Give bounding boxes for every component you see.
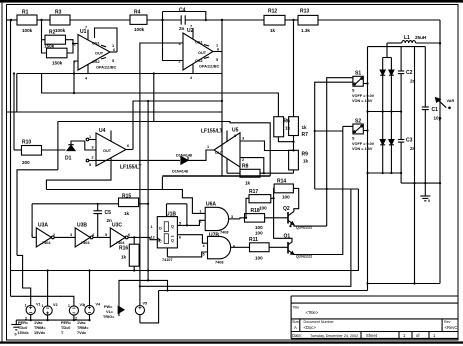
junction bbox=[413, 282, 415, 284]
wire inv3 to flip-flop clock bbox=[128, 237, 157, 239]
svg-text:R6: R6 bbox=[284, 119, 291, 125]
junction bbox=[147, 203, 149, 205]
wire mid rail A bbox=[17, 73, 222, 75]
resistor R13 bbox=[298, 15, 318, 25]
svg-text:1Vac: 1Vac bbox=[34, 321, 43, 325]
junction bbox=[366, 129, 368, 131]
svg-text:V5: V5 bbox=[143, 302, 148, 306]
svg-text:7404: 7404 bbox=[42, 241, 51, 245]
svg-text:Size: Size bbox=[292, 320, 299, 324]
comparator section box bbox=[58, 122, 270, 177]
svg-text:S1: S1 bbox=[355, 71, 361, 77]
svg-text:5: 5 bbox=[89, 163, 91, 167]
svg-text:R14: R14 bbox=[277, 179, 286, 185]
source V3 bbox=[69, 306, 78, 315]
junction bbox=[221, 100, 223, 102]
svg-text:Sheet: Sheet bbox=[366, 333, 378, 338]
svg-text:U3B: U3B bbox=[77, 223, 87, 229]
svg-text:U4: U4 bbox=[99, 128, 106, 134]
svg-text:3: 3 bbox=[74, 43, 76, 47]
source V2 bbox=[43, 306, 52, 315]
oscillator loop top bbox=[32, 203, 118, 205]
wire inv2 to inv3 bbox=[93, 236, 110, 238]
svg-text:100: 100 bbox=[255, 256, 263, 261]
svg-text:C1: C1 bbox=[432, 107, 439, 113]
resistor R3 bbox=[50, 15, 70, 25]
svg-text:C3: C3 bbox=[406, 138, 413, 144]
capacitor C5 bbox=[93, 204, 102, 238]
svg-text:Q2: Q2 bbox=[283, 206, 290, 212]
svg-text:3: 3 bbox=[70, 233, 72, 237]
svg-text:1Vac: 1Vac bbox=[77, 321, 86, 325]
junction bbox=[273, 197, 275, 199]
flip-flop U1B bbox=[157, 217, 177, 248]
wire V4 feed bbox=[89, 271, 91, 306]
junction bbox=[366, 82, 368, 84]
svg-text:LF155/LT: LF155/LT bbox=[120, 165, 142, 171]
svg-text:R1: R1 bbox=[22, 10, 29, 16]
svg-text:L1: L1 bbox=[404, 35, 410, 41]
page top bar bbox=[0, 0, 463, 3]
junction bbox=[40, 19, 42, 21]
svg-text:15Vdc: 15Vdc bbox=[18, 331, 29, 335]
svg-text:1k: 1k bbox=[245, 181, 251, 186]
svg-text:PW=: PW= bbox=[104, 305, 113, 309]
wire V5 feed bbox=[139, 286, 141, 305]
svg-text:Q2N2222: Q2N2222 bbox=[296, 255, 312, 259]
wire U5 pin2 to R8 node bbox=[240, 158, 264, 174]
junction bbox=[382, 110, 384, 112]
svg-text:5: 5 bbox=[203, 253, 205, 257]
junction bbox=[161, 19, 163, 21]
junction bbox=[139, 285, 141, 287]
svg-text:OUT: OUT bbox=[103, 149, 112, 153]
junction bbox=[10, 19, 12, 21]
inductor L1 bbox=[387, 41, 440, 43]
wire S2 lower feed bbox=[343, 125, 353, 127]
svg-text:R9: R9 bbox=[302, 152, 309, 158]
resistor R6 bbox=[274, 117, 284, 137]
junction bbox=[73, 92, 75, 94]
junction bbox=[88, 269, 90, 271]
svg-text:7: 7 bbox=[85, 26, 87, 30]
resistor R10 bbox=[22, 146, 42, 156]
svg-text:U1B: U1B bbox=[166, 212, 176, 218]
source PWL flag bbox=[118, 306, 124, 316]
junction bbox=[292, 149, 294, 151]
wire Q2 emitter rail bbox=[294, 225, 327, 227]
junction bbox=[147, 279, 149, 281]
svg-text:R8: R8 bbox=[242, 164, 249, 170]
svg-text:D1N4148: D1N4148 bbox=[176, 154, 192, 158]
svg-text:V1=: V1= bbox=[106, 310, 114, 314]
junction bbox=[245, 217, 247, 219]
wire mid rail C bbox=[7, 111, 222, 113]
svg-text:2n: 2n bbox=[179, 26, 185, 31]
svg-text:3: 3 bbox=[242, 137, 244, 141]
junction bbox=[366, 110, 368, 112]
resistor R11 bbox=[250, 243, 270, 252]
wire switch control rail bbox=[315, 82, 353, 189]
svg-text:Rev: Rev bbox=[444, 320, 451, 324]
svg-text:3: 3 bbox=[92, 146, 94, 150]
junction bbox=[47, 269, 49, 271]
svg-text:OPA111/BC: OPA111/BC bbox=[199, 65, 220, 69]
resistor R7 bbox=[289, 117, 299, 136]
wire bottom loop 2 bbox=[140, 189, 351, 286]
svg-text:7404: 7404 bbox=[81, 241, 90, 245]
svg-text:Date:: Date: bbox=[292, 333, 302, 338]
wire U2 non-inverting input bbox=[140, 43, 183, 286]
wire V3 feed bbox=[11, 296, 74, 306]
resistor R8 bbox=[240, 169, 260, 177]
source V4 bbox=[85, 305, 94, 314]
junction bbox=[326, 188, 328, 190]
wire Q2 collector to R14 bbox=[293, 188, 298, 211]
op-amp U4 bbox=[96, 133, 126, 166]
svg-text:OS2: OS2 bbox=[195, 59, 203, 63]
svg-text:1k: 1k bbox=[285, 126, 291, 131]
wire U1 feedback to top rail bbox=[95, 28, 118, 52]
svg-text:PER=: PER= bbox=[18, 321, 29, 325]
junction bbox=[147, 269, 149, 271]
svg-text:PER=: PER= bbox=[61, 321, 72, 325]
junction bbox=[424, 182, 426, 184]
capacitor C2 bbox=[398, 47, 404, 112]
wire Q to AND1 bbox=[177, 220, 205, 225]
svg-text:C2: C2 bbox=[406, 70, 413, 76]
junction bbox=[292, 19, 294, 21]
svg-text:7: 7 bbox=[190, 25, 192, 29]
resistor R4 bbox=[130, 15, 147, 24]
wire inv1 to inv2 bbox=[54, 236, 75, 238]
wire box bottom tie bbox=[161, 177, 163, 190]
junction bbox=[263, 172, 265, 174]
wire R17 to R14 bbox=[271, 188, 274, 198]
svg-text:5: 5 bbox=[179, 222, 181, 226]
svg-text:VAR: VAR bbox=[447, 99, 455, 103]
wire R8 rail bbox=[227, 172, 240, 174]
wire top rail segments bbox=[7, 19, 18, 21]
svg-text:2: 2 bbox=[75, 317, 77, 321]
wire R17 left to AND1 out bbox=[246, 198, 249, 218]
svg-text:VOFF = 0.0V: VOFF = 0.0V bbox=[352, 94, 375, 98]
svg-text:OPA111/BC: OPA111/BC bbox=[96, 66, 117, 70]
junction bbox=[382, 172, 384, 174]
svg-text:R17: R17 bbox=[249, 189, 258, 195]
wire source stubs to bus bbox=[30, 315, 32, 321]
svg-text:Tuesday, December 24, 2002: Tuesday, December 24, 2002 bbox=[310, 334, 358, 338]
ground tank bbox=[420, 183, 430, 201]
wire comparator out to logic bbox=[46, 190, 205, 214]
wire flag feed bbox=[119, 280, 168, 306]
junction bbox=[73, 319, 75, 321]
resistor R14 bbox=[274, 184, 293, 193]
inverter U3B bbox=[75, 228, 93, 247]
svg-text:U7B: U7B bbox=[209, 233, 219, 239]
junction bbox=[205, 19, 207, 21]
svg-text:TRIM=: TRIM= bbox=[34, 326, 46, 330]
svg-text:74107: 74107 bbox=[162, 258, 173, 262]
wire left drop 2 bbox=[13, 74, 15, 151]
svg-text:10p: 10p bbox=[434, 116, 442, 121]
svg-text:R7: R7 bbox=[302, 132, 309, 138]
wire R2 feed bbox=[42, 20, 47, 53]
svg-text:100k: 100k bbox=[22, 28, 33, 33]
junction bbox=[166, 289, 168, 291]
svg-text:TRIM=: TRIM= bbox=[77, 326, 89, 330]
diode pair column 1 bbox=[380, 58, 385, 174]
junction bbox=[13, 72, 15, 74]
svg-text:OUT: OUT bbox=[215, 151, 224, 155]
svg-text:150k: 150k bbox=[52, 61, 63, 66]
resistor R1 bbox=[17, 15, 37, 25]
wire U1 non-inverting input drop bbox=[74, 61, 78, 93]
svg-text:OUT: OUT bbox=[95, 52, 104, 56]
svg-text:100k: 100k bbox=[134, 27, 145, 32]
svg-text:TD=0: TD=0 bbox=[18, 326, 27, 330]
svg-text:6: 6 bbox=[127, 144, 129, 148]
svg-text:7408: 7408 bbox=[215, 261, 223, 265]
svg-text:1k: 1k bbox=[124, 211, 130, 216]
svg-text:6: 6 bbox=[128, 233, 130, 237]
wire R2 R5 to U1 inverting input bbox=[66, 40, 74, 53]
resistor R9 bbox=[289, 150, 299, 170]
svg-text:3: 3 bbox=[179, 42, 181, 46]
wire top rail drop to tank bbox=[439, 20, 441, 284]
wire varactor mid rail bbox=[368, 111, 402, 113]
junction bbox=[221, 19, 223, 21]
junction bbox=[147, 100, 149, 102]
svg-text:C5: C5 bbox=[105, 210, 112, 216]
svg-text:1: 1 bbox=[151, 225, 153, 229]
junction bbox=[400, 110, 402, 112]
wire V2 feed bbox=[47, 271, 49, 306]
resistor R15 bbox=[119, 198, 139, 207]
svg-text:LF155/LT: LF155/LT bbox=[201, 129, 223, 135]
wire S1 out bbox=[363, 83, 367, 85]
wire diode bridge tap bbox=[383, 43, 387, 58]
junction bbox=[47, 319, 49, 321]
wire bottom loop 1 bbox=[11, 189, 359, 271]
svg-text:2: 2 bbox=[74, 60, 76, 64]
svg-text:2: 2 bbox=[179, 60, 181, 64]
junction bbox=[390, 172, 392, 174]
wire U4 lower input from D2 line bbox=[96, 159, 180, 161]
svg-text:OS1: OS1 bbox=[92, 42, 100, 46]
wire AND1 output to R18 bbox=[229, 218, 240, 220]
svg-text:R11: R11 bbox=[249, 237, 258, 243]
svg-text:U5: U5 bbox=[232, 128, 239, 134]
junction bbox=[88, 319, 90, 321]
junction bbox=[366, 282, 368, 284]
wire R10 to D1 bbox=[42, 149, 66, 151]
svg-text:Q1: Q1 bbox=[284, 233, 291, 239]
wire U5 pin3 loop bbox=[240, 141, 294, 151]
junction bbox=[289, 225, 291, 227]
diode pair column 2 bbox=[389, 58, 394, 174]
wire U2 output feedback and drop bbox=[221, 20, 223, 176]
junction bbox=[30, 319, 32, 321]
svg-text:R12: R12 bbox=[268, 9, 277, 15]
source V1 bbox=[26, 305, 35, 314]
svg-text:1: 1 bbox=[68, 304, 70, 308]
svg-text:6: 6 bbox=[179, 236, 181, 240]
transistor Q2 bbox=[288, 212, 294, 225]
svg-text:S2: S2 bbox=[355, 119, 361, 125]
junction bbox=[390, 110, 392, 112]
svg-text:1: 1 bbox=[200, 210, 202, 214]
svg-text:1: 1 bbox=[207, 145, 209, 149]
svg-text:15Vdc: 15Vdc bbox=[34, 331, 45, 335]
wire U2 bypass loop bbox=[163, 12, 206, 21]
svg-text:Title: Title bbox=[293, 306, 300, 310]
op-amp U2 bbox=[183, 33, 213, 70]
wire U4 output rail bbox=[133, 101, 222, 150]
wire tank bottom rail A bbox=[368, 172, 402, 174]
wire AND2 pin2 feed bbox=[167, 252, 207, 257]
svg-text:U6A: U6A bbox=[206, 202, 216, 208]
op-amp U1 bbox=[78, 35, 110, 71]
junction bbox=[153, 72, 155, 74]
svg-text:U3C: U3C bbox=[112, 223, 122, 229]
svg-text:2: 2 bbox=[92, 156, 94, 160]
junction bbox=[314, 130, 316, 132]
svg-text:0: 0 bbox=[428, 199, 430, 203]
resistor R5 bbox=[47, 48, 68, 58]
resistor R12 bbox=[264, 15, 285, 25]
svg-text:100: 100 bbox=[282, 195, 290, 200]
wire U2 inverting input from top rail bbox=[163, 12, 184, 61]
junction bbox=[439, 182, 441, 184]
wire Q1 emitter rail bbox=[294, 126, 343, 254]
wire D2 to U5 output jog bbox=[188, 150, 214, 160]
svg-text:1.3k: 1.3k bbox=[301, 28, 310, 33]
svg-text:100k: 100k bbox=[55, 28, 66, 33]
svg-text:R16: R16 bbox=[119, 246, 128, 252]
capacitor C1 variable bbox=[422, 47, 447, 184]
svg-text:Q: Q bbox=[171, 239, 174, 243]
svg-text:0: 0 bbox=[15, 333, 17, 337]
svg-text:1k: 1k bbox=[302, 125, 308, 130]
svg-text:2: 2 bbox=[200, 220, 202, 224]
diode D1 bbox=[67, 141, 96, 151]
inverter U3C bbox=[110, 228, 128, 247]
svg-text:VON = 1.0V: VON = 1.0V bbox=[352, 99, 373, 103]
capacitor C3 bbox=[398, 112, 404, 184]
svg-text:Document Number: Document Number bbox=[304, 320, 335, 324]
svg-text:2: 2 bbox=[53, 233, 55, 237]
op-amp U5 pointing left bbox=[214, 133, 240, 167]
svg-text:6: 6 bbox=[234, 134, 236, 138]
svg-text:R15: R15 bbox=[122, 194, 131, 200]
svg-text:1k: 1k bbox=[270, 28, 276, 33]
wire S2 upper feed bbox=[315, 130, 343, 132]
wire drop x153.8 bbox=[153, 74, 155, 122]
switch S1 bbox=[353, 76, 363, 86]
svg-text:D1: D1 bbox=[65, 156, 72, 162]
page left edge bbox=[1, 3, 3, 342]
svg-text:R4: R4 bbox=[134, 10, 141, 16]
svg-text:U2: U2 bbox=[187, 28, 194, 34]
wire R10 feed bbox=[14, 149, 22, 151]
svg-text:1k: 1k bbox=[121, 255, 127, 260]
junction bbox=[439, 42, 441, 44]
svg-text:25uH: 25uH bbox=[415, 35, 427, 40]
svg-text:2: 2 bbox=[242, 158, 244, 162]
svg-text:OS1: OS1 bbox=[195, 41, 203, 45]
wire S1 lower feed bbox=[327, 78, 353, 226]
svg-text:1: 1 bbox=[31, 233, 33, 237]
junction bbox=[400, 172, 402, 174]
junction bbox=[97, 203, 99, 205]
svg-text:Q2N2222: Q2N2222 bbox=[296, 226, 312, 230]
wire R7 top feed bbox=[293, 20, 295, 117]
wire S2 out bbox=[363, 130, 367, 132]
capacitor C4 bbox=[181, 15, 185, 24]
svg-text:100: 100 bbox=[255, 225, 263, 230]
wire left drop 1 bbox=[10, 20, 12, 296]
AND gate U6A bbox=[205, 207, 228, 230]
junction bbox=[413, 182, 415, 184]
page bottom bar bbox=[0, 341, 463, 343]
junction bbox=[292, 141, 294, 143]
svg-text:6: 6 bbox=[113, 48, 115, 52]
svg-text:150k: 150k bbox=[44, 44, 55, 49]
svg-text:<Title>: <Title> bbox=[306, 310, 319, 315]
wire drop x148 bbox=[147, 101, 149, 280]
wire Qbar to AND2 bbox=[177, 235, 207, 244]
svg-text:<RevC: <RevC bbox=[445, 325, 458, 330]
resistor R2 bbox=[45, 35, 66, 44]
svg-text:2n: 2n bbox=[410, 146, 416, 151]
svg-text:U3A: U3A bbox=[38, 223, 48, 229]
svg-text:<Doc>: <Doc> bbox=[304, 325, 317, 330]
junction bbox=[186, 224, 188, 226]
wire tank column bbox=[414, 47, 416, 284]
svg-text:1: 1 bbox=[89, 135, 91, 139]
svg-text:3: 3 bbox=[231, 215, 233, 219]
svg-text:V1: V1 bbox=[36, 303, 41, 307]
svg-text:Q: Q bbox=[171, 225, 174, 229]
svg-text:D1N4148: D1N4148 bbox=[172, 170, 188, 174]
svg-text:2: 2 bbox=[25, 317, 27, 321]
AND gate U7B bbox=[208, 236, 231, 258]
wire tank return loop bbox=[368, 283, 441, 285]
svg-text:OS2: OS2 bbox=[92, 60, 100, 64]
svg-text:VON = 1.0V: VON = 1.0V bbox=[352, 147, 373, 151]
wire mid rail B bbox=[42, 74, 279, 117]
svg-text:R2: R2 bbox=[49, 30, 56, 36]
ground bottom bbox=[11, 320, 21, 330]
svg-text:12: 12 bbox=[151, 236, 155, 240]
svg-text:7408: 7408 bbox=[220, 231, 228, 235]
svg-text:5: 5 bbox=[112, 59, 114, 63]
junction bbox=[133, 269, 135, 271]
svg-text:R10: R10 bbox=[22, 140, 31, 146]
svg-text:C: C bbox=[159, 240, 162, 244]
svg-text:100: 100 bbox=[255, 231, 263, 236]
source V5 bbox=[135, 306, 144, 315]
svg-text:U1: U1 bbox=[80, 29, 87, 35]
junction bbox=[72, 42, 74, 44]
svg-text:5: 5 bbox=[105, 233, 107, 237]
wire bottom loop 3 bbox=[159, 290, 368, 292]
resistor R18 bbox=[245, 214, 265, 223]
svg-text:TRIG=: TRIG= bbox=[103, 315, 115, 319]
wire R14 node to Q1 collector bbox=[274, 198, 292, 245]
svg-text:TD=0: TD=0 bbox=[61, 326, 70, 330]
